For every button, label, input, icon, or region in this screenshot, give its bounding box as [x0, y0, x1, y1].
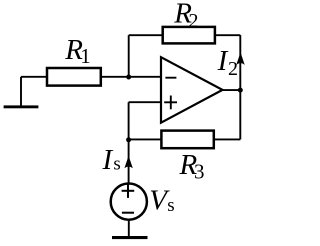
wire: feedback top left segment	[129, 34, 163, 36]
op-amp minus sign	[165, 77, 176, 79]
svg-text:2: 2	[228, 58, 238, 80]
wire: source node down to Vs	[128, 140, 130, 184]
wire: down to source node	[128, 102, 130, 140]
wire: R2 right to right rail	[215, 34, 240, 36]
wire: right rail vertical	[239, 35, 241, 139]
resistor R3	[161, 131, 213, 149]
svg-text:1: 1	[80, 44, 91, 68]
junction: source node	[126, 137, 131, 142]
svg-text:s: s	[167, 195, 174, 216]
current arrow Is (pointing up toward source node)	[124, 156, 132, 169]
wire: op-amp plus input to left	[129, 101, 161, 103]
voltage source minus sign	[122, 212, 134, 214]
ground (bottom, below Vs)	[112, 236, 148, 239]
label R1	[64, 34, 91, 68]
voltage source Vs	[111, 184, 147, 220]
wire: inverting node to op-amp minus input	[129, 76, 161, 78]
wire: node up to R2 feedback branch	[128, 35, 130, 77]
wire: R3 right to right rail	[214, 138, 241, 140]
label Is	[102, 144, 121, 176]
voltage source plus sign	[122, 184, 135, 198]
junction: output node	[238, 88, 243, 93]
current arrow I2 (pointing up on right rail)	[236, 52, 244, 65]
op-amp plus sign	[164, 96, 177, 110]
resistor R2	[163, 27, 215, 44]
svg-text:2: 2	[189, 10, 199, 32]
wire: source node to R3 left	[129, 138, 162, 140]
wire: ground to R1 left	[21, 76, 47, 78]
label R3	[179, 149, 205, 184]
svg-text:I: I	[217, 45, 229, 77]
label R2	[173, 0, 198, 32]
op-amp U1	[161, 57, 223, 123]
resistor R1	[47, 68, 101, 86]
svg-text:I: I	[102, 144, 114, 176]
label Vs	[149, 185, 174, 217]
wire: R1 right to inverting input node	[101, 76, 129, 78]
label I2	[217, 45, 238, 80]
wire: Vs bottom to ground	[128, 220, 130, 237]
junction: inverting input node	[126, 75, 131, 80]
ground (left, at R1 input)	[4, 77, 39, 109]
svg-text:s: s	[113, 154, 120, 175]
wire: op-amp output to right rail	[223, 89, 241, 91]
svg-text:3: 3	[194, 160, 205, 184]
